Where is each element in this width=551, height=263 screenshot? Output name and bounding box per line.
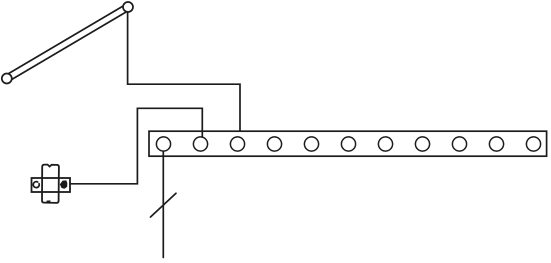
switch S1 pivot circle (left end)	[2, 74, 12, 84]
plug P1 vertical body	[42, 165, 59, 203]
terminal 3	[230, 137, 244, 151]
terminal 2	[193, 137, 207, 151]
wire from terminal 1 down (cable drop)	[162, 151, 164, 257]
terminal strip TB1 body	[149, 131, 547, 156]
terminal 7	[378, 137, 392, 151]
terminal 10	[489, 137, 503, 151]
plug P1 horizontal body	[32, 178, 71, 192]
terminal 11	[526, 137, 540, 151]
plug P1 right contact (filled)	[60, 181, 67, 189]
plug P1 left contact circle	[33, 182, 39, 188]
switch S1 contact circle (top end)	[123, 2, 133, 12]
plug P1 bottom mark	[47, 200, 51, 202]
switch S1 lever arm	[5, 4, 130, 81]
wire from terminal 2 to plug P1	[70, 108, 202, 184]
terminal 5	[304, 137, 318, 151]
terminal 8	[415, 137, 429, 151]
wire from switch to terminal 3	[128, 12, 240, 137]
terminal 6	[341, 137, 355, 151]
terminal 1	[156, 137, 170, 151]
cable slash mark	[151, 193, 177, 217]
terminal 9	[452, 137, 466, 151]
terminal 4	[267, 137, 281, 151]
